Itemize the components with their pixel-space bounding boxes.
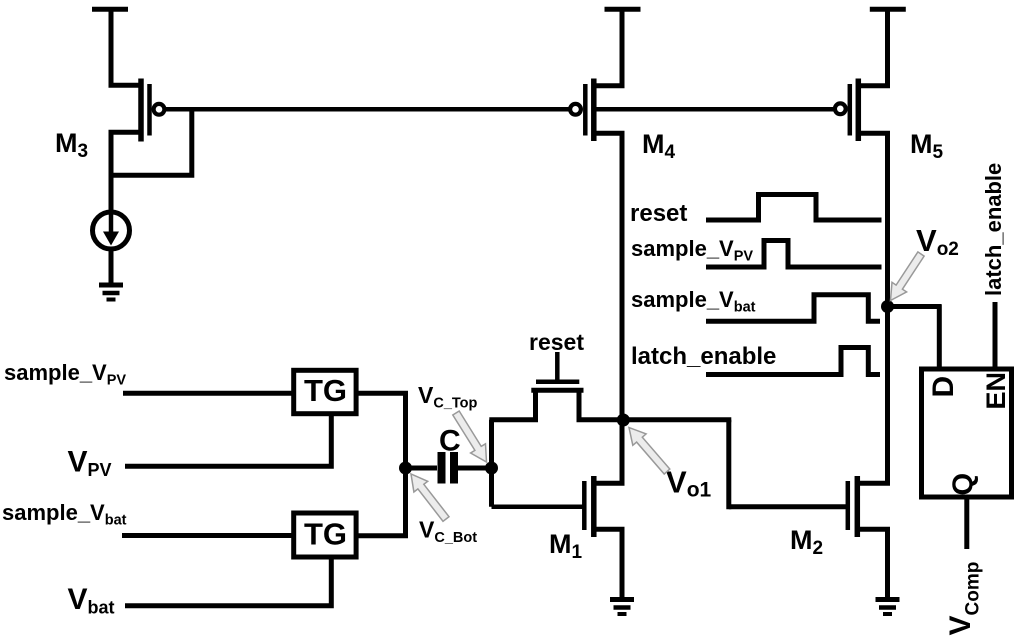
svg-text:VComp: VComp: [944, 562, 984, 636]
svg-text:sample_Vbat: sample_Vbat: [2, 500, 127, 529]
svg-text:C: C: [439, 425, 461, 458]
svg-text:TG: TG: [304, 373, 347, 408]
svg-text:sample_VPV: sample_VPV: [4, 360, 126, 389]
svg-text:M5: M5: [910, 129, 944, 163]
svg-text:sample_Vbat: sample_Vbat: [631, 287, 756, 316]
svg-text:reset: reset: [630, 200, 687, 227]
svg-text:sample_VPV: sample_VPV: [631, 236, 753, 265]
svg-text:EN: EN: [981, 372, 1011, 410]
svg-text:VC_Top: VC_Top: [418, 382, 478, 412]
svg-text:TG: TG: [304, 517, 347, 552]
svg-text:M3: M3: [55, 128, 88, 162]
svg-text:VPV: VPV: [68, 446, 112, 481]
svg-text:M2: M2: [790, 525, 823, 559]
svg-text:latch_enable: latch_enable: [631, 343, 776, 370]
svg-text:reset: reset: [529, 329, 584, 355]
svg-text:M1: M1: [549, 529, 583, 563]
svg-text:Vo1: Vo1: [666, 465, 712, 502]
svg-text:VC_Bot: VC_Bot: [419, 517, 477, 547]
svg-text:M4: M4: [642, 129, 676, 163]
svg-text:latch_enable: latch_enable: [981, 163, 1006, 296]
svg-text:Q: Q: [948, 473, 980, 496]
svg-text:Vbat: Vbat: [68, 583, 115, 618]
svg-text:D: D: [927, 376, 960, 398]
